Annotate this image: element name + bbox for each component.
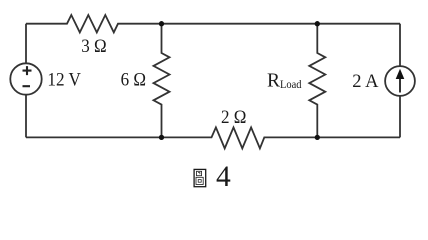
svg-text:2 A: 2 A: [352, 72, 379, 92]
svg-text:3 Ω: 3 Ω: [81, 37, 106, 57]
svg-text:2 Ω: 2 Ω: [221, 108, 246, 128]
svg-text:RLoad: RLoad: [267, 71, 302, 92]
svg-text:12 V: 12 V: [47, 70, 81, 90]
svg-text:4: 4: [216, 161, 231, 193]
svg-text:6 Ω: 6 Ω: [121, 71, 146, 91]
